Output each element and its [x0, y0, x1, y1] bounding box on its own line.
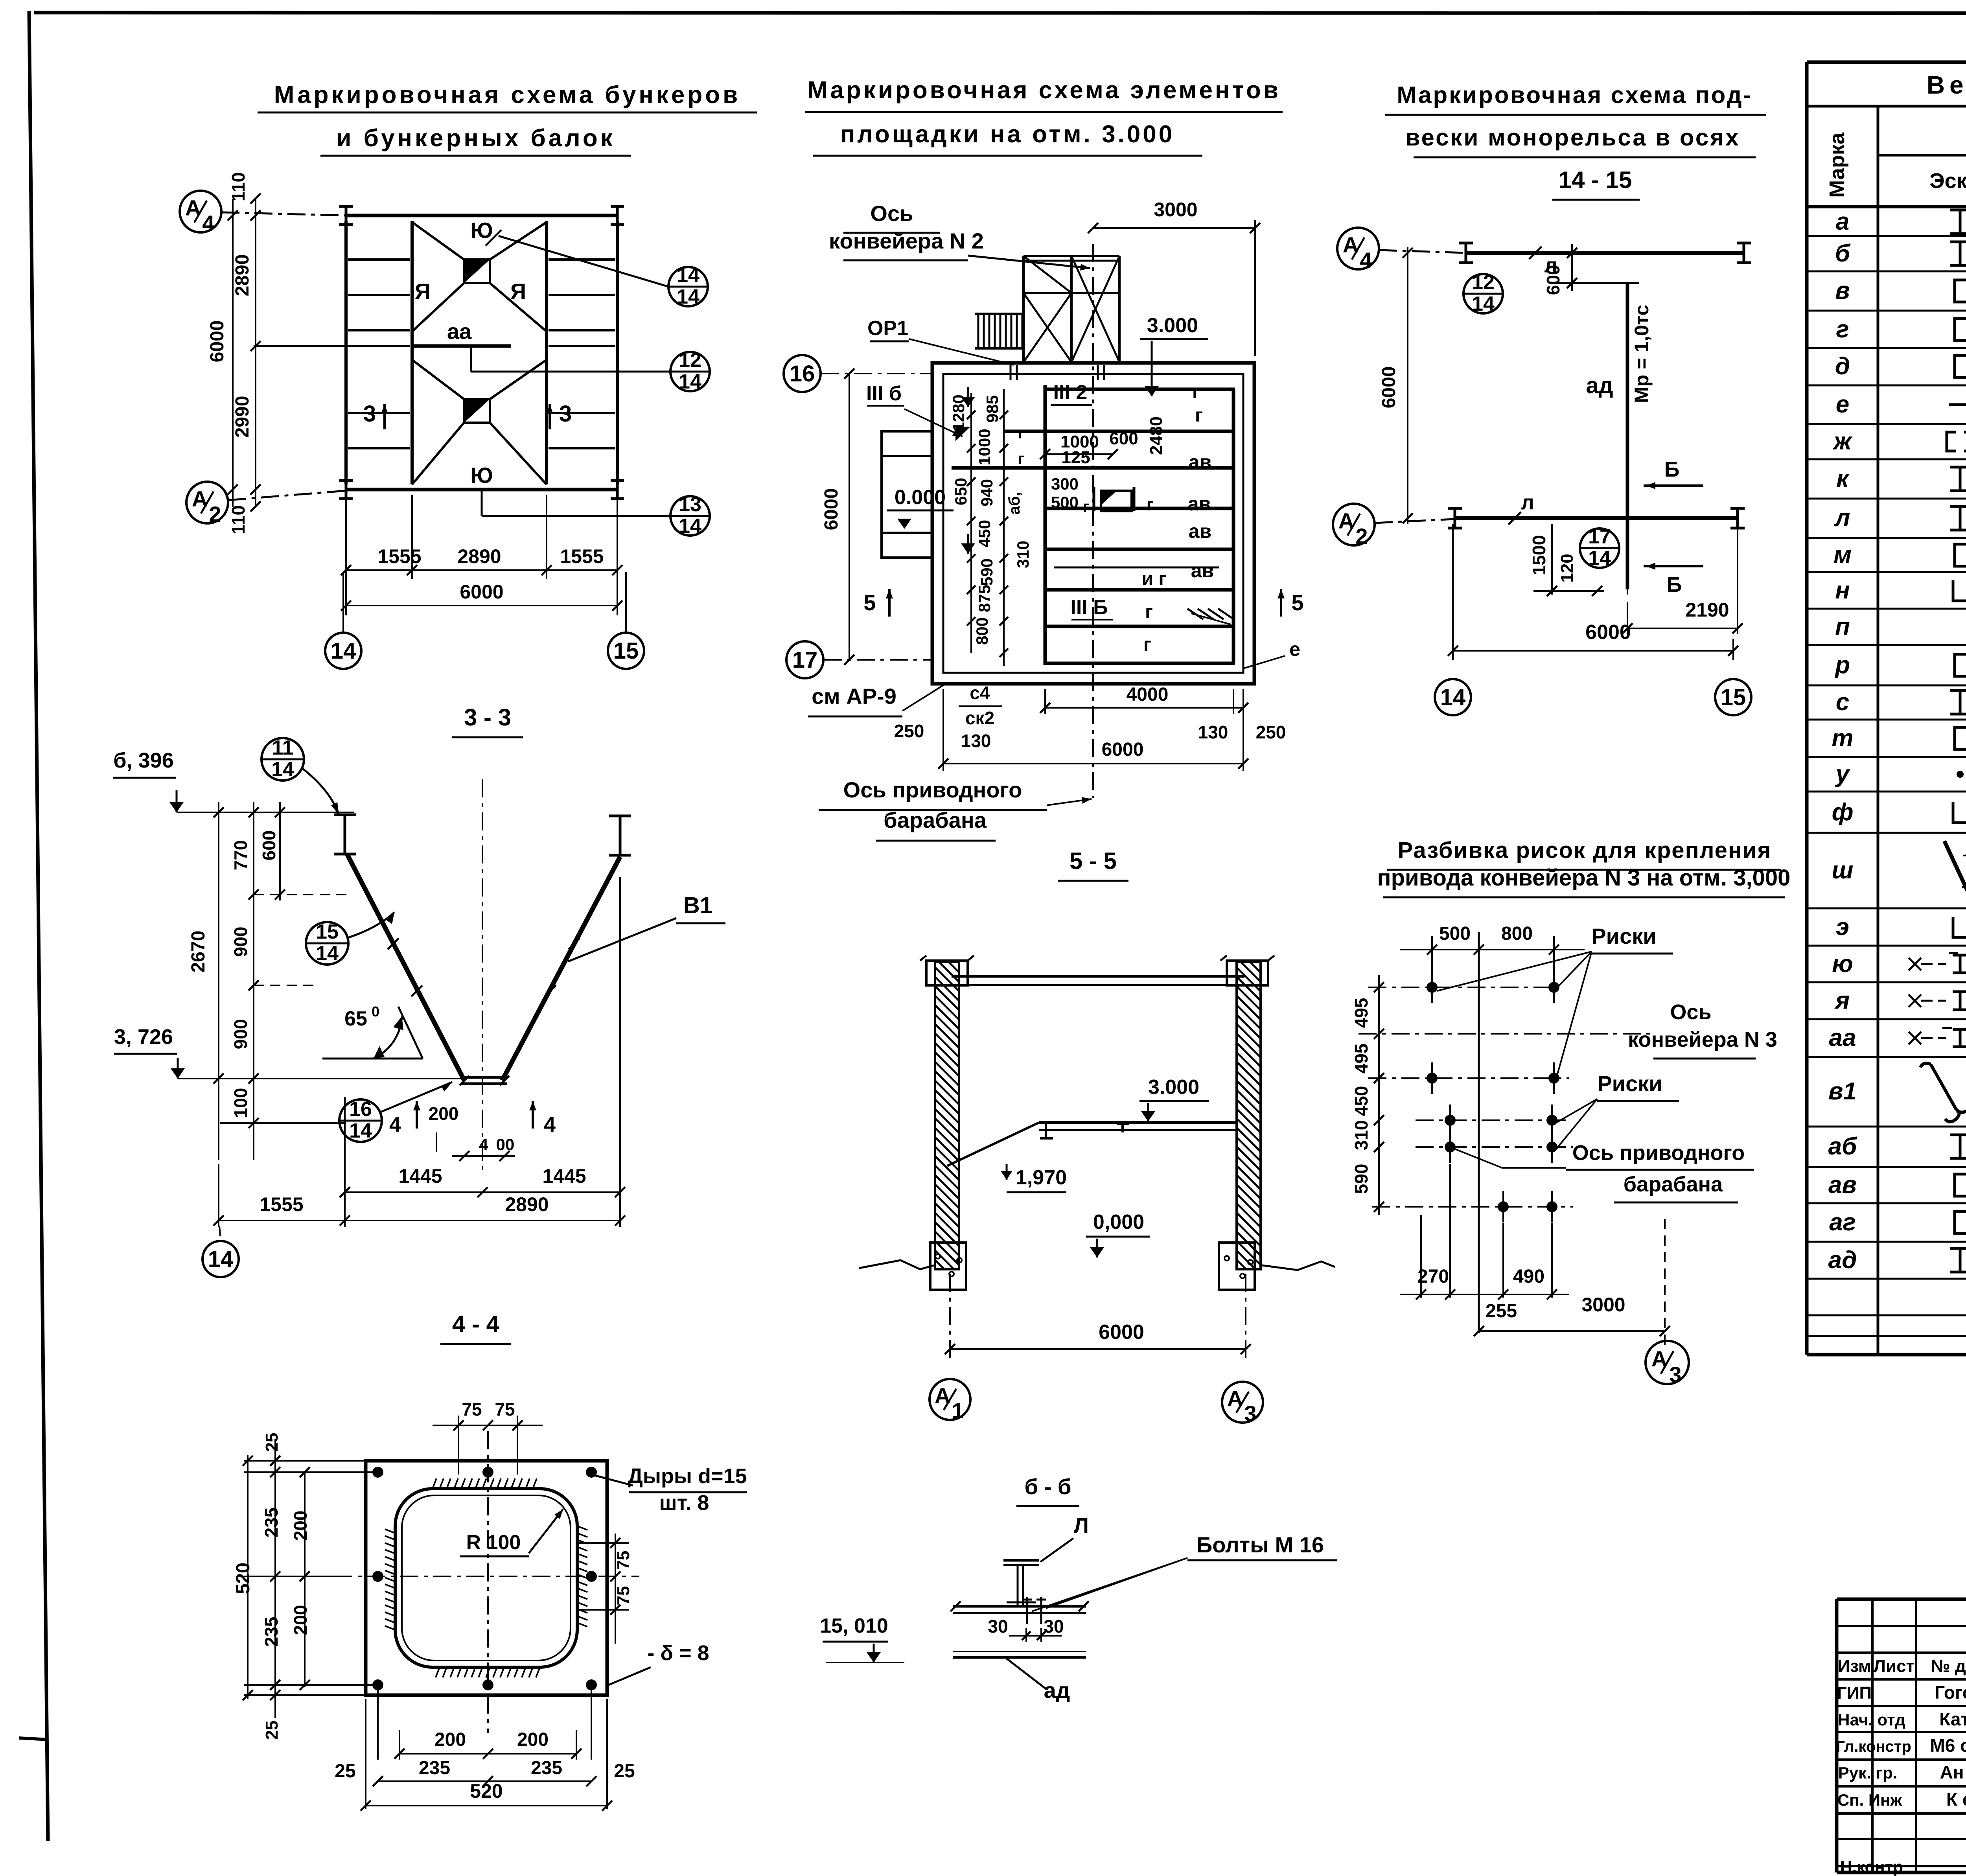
svg-text:Ось: Ось — [1670, 1000, 1711, 1024]
svg-text:4: 4 — [479, 1135, 488, 1154]
svg-text:аб,: аб, — [1006, 492, 1023, 515]
svg-text:3: 3 — [1244, 1401, 1256, 1426]
svg-text:25: 25 — [614, 1761, 635, 1782]
svg-text:65: 65 — [344, 1007, 367, 1030]
svg-text:Изм: Изм — [1838, 1657, 1871, 1676]
svg-text:15, 010: 15, 010 — [820, 1615, 888, 1637]
svg-text:ф: ф — [1832, 799, 1854, 826]
svg-text:л: л — [1834, 504, 1850, 532]
svg-text:14: 14 — [208, 1246, 234, 1272]
svg-text:3000: 3000 — [1154, 199, 1197, 221]
svg-text:е: е — [1289, 638, 1300, 660]
svg-text:520: 520 — [470, 1780, 503, 1802]
svg-text:0.000: 0.000 — [895, 486, 946, 509]
svg-text:Н.контр: Н.контр — [1840, 1858, 1903, 1876]
svg-text:3.000: 3.000 — [1148, 1076, 1199, 1099]
svg-text:у: у — [1835, 760, 1851, 788]
svg-text:Л: Л — [1074, 1514, 1089, 1537]
svg-text:11: 11 — [272, 736, 294, 759]
svg-text:495: 495 — [1351, 1044, 1371, 1074]
svg-text:г: г — [1192, 381, 1200, 402]
svg-text:шт. 8: шт. 8 — [659, 1491, 709, 1515]
svg-text:в: в — [1835, 277, 1850, 304]
svg-text:с: с — [1836, 689, 1849, 716]
svg-text:5: 5 — [1291, 590, 1303, 615]
svg-text:Риски: Риски — [1597, 1071, 1662, 1096]
svg-text:А: А — [1338, 508, 1354, 533]
svg-text:15: 15 — [1721, 685, 1746, 710]
svg-text:6000: 6000 — [1379, 366, 1399, 409]
svg-text:1000: 1000 — [975, 429, 994, 465]
svg-text:30: 30 — [988, 1616, 1008, 1637]
svg-text:к: к — [1836, 465, 1850, 492]
svg-text:ск2: ск2 — [965, 708, 994, 728]
svg-text:110: 110 — [228, 172, 249, 201]
svg-text:конвейера N 3: конвейера N 3 — [1628, 1028, 1777, 1051]
svg-text:235: 235 — [419, 1758, 450, 1778]
svg-text:с4: с4 — [970, 683, 990, 703]
svg-text:900: 900 — [230, 1019, 251, 1049]
svg-text:ав: ав — [1188, 493, 1211, 515]
svg-text:1555: 1555 — [377, 545, 421, 567]
svg-text:3, 726: 3, 726 — [114, 1025, 173, 1049]
svg-text:Лист: Лист — [1874, 1657, 1914, 1676]
svg-text:и г: и г — [1142, 569, 1167, 589]
svg-text:2: 2 — [209, 502, 221, 527]
svg-text:900: 900 — [230, 927, 251, 957]
svg-text:6000: 6000 — [821, 488, 842, 530]
svg-text:А: А — [1227, 1386, 1243, 1411]
svg-text:III Б: III Б — [1070, 596, 1108, 619]
svg-text:1,970: 1,970 — [1016, 1166, 1067, 1189]
svg-text:III 2: III 2 — [1053, 381, 1088, 404]
svg-text:п: п — [1835, 613, 1850, 640]
svg-text:250: 250 — [1256, 722, 1286, 742]
svg-text:75: 75 — [462, 1399, 482, 1419]
svg-text:14: 14 — [677, 264, 700, 287]
svg-text:ш: ш — [1832, 857, 1853, 884]
svg-text:310: 310 — [1014, 541, 1032, 568]
svg-text:600: 600 — [259, 830, 279, 861]
svg-text:235: 235 — [261, 1508, 282, 1538]
svg-text:200: 200 — [429, 1103, 459, 1124]
svg-text:2890: 2890 — [232, 254, 253, 296]
svg-text:н: н — [1835, 577, 1850, 604]
svg-text:е: е — [1836, 391, 1849, 418]
svg-text:Маркировочная схема под-: Маркировочная схема под- — [1397, 82, 1752, 108]
svg-text:4 - 4: 4 - 4 — [452, 1311, 500, 1337]
svg-text:ав: ав — [1828, 1171, 1857, 1199]
svg-text:Дыры d=15: Дыры d=15 — [628, 1464, 747, 1488]
svg-text:Гоголев: Гоголев — [1935, 1682, 1966, 1703]
svg-text:вески монорельса в осях: вески монорельса в осях — [1405, 124, 1740, 151]
svg-text:Риски: Риски — [1591, 924, 1656, 948]
svg-text:л: л — [1521, 491, 1534, 514]
svg-text:Катков: Катков — [1939, 1709, 1966, 1729]
svg-text:г: г — [1143, 634, 1151, 655]
svg-text:б: б — [1835, 240, 1851, 267]
svg-text:270: 270 — [1417, 1266, 1449, 1287]
svg-text:Б: Б — [1667, 573, 1682, 596]
svg-text:14: 14 — [1440, 685, 1466, 710]
svg-text:310: 310 — [1351, 1120, 1371, 1151]
svg-text:985: 985 — [983, 395, 1001, 423]
svg-text:5 - 5: 5 - 5 — [1070, 848, 1117, 874]
svg-text:1280: 1280 — [949, 394, 968, 431]
svg-text:450: 450 — [1351, 1086, 1371, 1116]
svg-text:аа: аа — [447, 319, 472, 344]
svg-text:Я: Я — [510, 279, 526, 304]
svg-text:3: 3 — [559, 401, 572, 427]
svg-text:привода конвейера N 3 на отм: привода конвейера N 3 на отм. 3,000 — [1377, 865, 1791, 891]
svg-text:Ось приводного: Ось приводного — [843, 777, 1022, 802]
svg-text:см АР-9: см АР-9 — [812, 684, 896, 709]
svg-text:30: 30 — [1044, 1616, 1064, 1637]
svg-text:5: 5 — [863, 590, 876, 615]
svg-text:13: 13 — [679, 493, 701, 516]
svg-text:800: 800 — [973, 617, 991, 645]
svg-text:3000: 3000 — [1581, 1294, 1625, 1316]
svg-text:барабана: барабана — [884, 808, 987, 832]
svg-text:600: 600 — [1543, 265, 1563, 295]
svg-text:К еев: К еев — [1946, 1789, 1966, 1810]
svg-text:75: 75 — [614, 1586, 633, 1605]
svg-text:14: 14 — [331, 638, 356, 664]
svg-text:3 - 3: 3 - 3 — [464, 704, 511, 731]
svg-text:барабана: барабана — [1624, 1173, 1723, 1196]
svg-text:6000: 6000 — [1102, 739, 1144, 760]
svg-text:Эскиз: Эскиз — [1929, 169, 1966, 193]
svg-text:1445: 1445 — [542, 1165, 586, 1187]
svg-text:№ докум.: № докум. — [1931, 1657, 1966, 1676]
svg-text:200: 200 — [517, 1729, 549, 1750]
svg-text:14: 14 — [349, 1119, 372, 1142]
svg-text:14: 14 — [1588, 547, 1611, 570]
svg-text:Сп. Инж: Сп. Инж — [1837, 1791, 1903, 1809]
svg-text:75: 75 — [495, 1399, 515, 1419]
svg-text:а: а — [1836, 208, 1849, 235]
svg-text:ав: ав — [1189, 451, 1212, 473]
svg-text:15: 15 — [613, 638, 639, 664]
svg-text:ав: ав — [1191, 560, 1214, 582]
svg-text:4: 4 — [389, 1113, 401, 1136]
svg-text:площадки на отм. 3.000: площадки на отм. 3.000 — [840, 121, 1174, 148]
svg-text:1500: 1500 — [1529, 535, 1549, 575]
svg-text:00: 00 — [496, 1135, 515, 1154]
svg-text:6000: 6000 — [1099, 1321, 1144, 1344]
svg-text:14: 14 — [316, 942, 339, 965]
svg-text:300: 300 — [1051, 475, 1079, 493]
svg-text:я: я — [1834, 987, 1850, 1014]
svg-text:130: 130 — [961, 731, 991, 751]
svg-text:М6 озова: М6 озова — [1930, 1735, 1966, 1756]
svg-text:17: 17 — [792, 647, 818, 673]
svg-text:14 - 15: 14 - 15 — [1559, 167, 1632, 193]
svg-text:3.000: 3.000 — [1147, 314, 1198, 337]
svg-text:4000: 4000 — [1127, 684, 1169, 705]
svg-text:490: 490 — [1513, 1266, 1544, 1287]
svg-text:2480: 2480 — [1147, 416, 1166, 455]
svg-text:г: г — [1836, 316, 1849, 343]
svg-text:Б: Б — [1664, 458, 1680, 481]
svg-text:г: г — [1147, 495, 1154, 514]
svg-text:14: 14 — [679, 515, 701, 538]
svg-text:2990: 2990 — [232, 396, 253, 438]
svg-text:250: 250 — [894, 721, 924, 741]
svg-text:590: 590 — [1351, 1164, 1371, 1194]
svg-text:16: 16 — [349, 1098, 372, 1121]
svg-text:э: э — [1836, 913, 1849, 941]
svg-text:Марка: Марка — [1825, 132, 1849, 198]
svg-text:III б: III б — [866, 382, 902, 405]
svg-text:Ю: Ю — [470, 218, 493, 243]
svg-text:Мр = 1,0тс: Мр = 1,0тс — [1631, 305, 1653, 403]
svg-text:ад: ад — [1828, 1246, 1857, 1274]
svg-text:Гл.констр: Гл.констр — [1836, 1738, 1911, 1755]
svg-text:200: 200 — [290, 1605, 311, 1635]
svg-text:125: 125 — [1061, 448, 1090, 467]
svg-text:в1: в1 — [1828, 1078, 1857, 1105]
svg-text:м: м — [1833, 541, 1852, 569]
svg-text:25: 25 — [262, 1721, 282, 1740]
svg-text:800: 800 — [1501, 923, 1533, 944]
svg-text:130: 130 — [1198, 722, 1228, 742]
svg-text:и бункерных балок: и бункерных балок — [336, 125, 615, 152]
svg-text:940: 940 — [977, 479, 996, 506]
svg-text:4: 4 — [202, 211, 214, 236]
svg-text:А: А — [1651, 1346, 1667, 1371]
svg-text:аа: аа — [1829, 1024, 1856, 1051]
svg-text:А: А — [192, 486, 208, 511]
svg-text:р: р — [1834, 652, 1850, 679]
svg-text:г: г — [1018, 425, 1025, 442]
svg-text:ав: ав — [1189, 520, 1212, 542]
svg-text:600: 600 — [1109, 429, 1138, 448]
svg-text:3: 3 — [363, 401, 376, 427]
svg-text:Ось: Ось — [870, 201, 913, 226]
svg-text:12: 12 — [1472, 271, 1495, 294]
svg-text:Разбивка рисок для креплени: Разбивка рисок для крепления — [1398, 838, 1772, 863]
svg-text:4: 4 — [544, 1113, 556, 1136]
svg-text:495: 495 — [1351, 998, 1371, 1028]
svg-text:Нач. отд: Нач. отд — [1838, 1710, 1905, 1729]
svg-text:14: 14 — [679, 370, 701, 393]
svg-text:110: 110 — [228, 505, 249, 534]
svg-text:г: г — [1145, 602, 1153, 622]
svg-text:16: 16 — [790, 361, 815, 387]
svg-text:14: 14 — [1472, 293, 1495, 315]
svg-text:255: 255 — [1486, 1301, 1517, 1322]
svg-text:т: т — [1832, 725, 1853, 752]
svg-text:17: 17 — [1588, 525, 1611, 548]
svg-text:1555: 1555 — [260, 1193, 303, 1215]
svg-text:Ан кин: Ан кин — [1940, 1762, 1966, 1782]
svg-text:Маркировочная схема бункеров: Маркировочная схема бункеров — [274, 81, 740, 109]
svg-text:650: 650 — [952, 478, 970, 505]
svg-text:2670: 2670 — [188, 931, 209, 973]
svg-text:ГИП: ГИП — [1837, 1683, 1872, 1703]
svg-text:г: г — [1083, 498, 1090, 515]
svg-text:д: д — [1835, 353, 1850, 380]
svg-text:ад: ад — [1586, 373, 1613, 398]
svg-text:Ведомость элементов: Ведомость элементов — [1927, 71, 1966, 99]
svg-text:2: 2 — [1355, 524, 1368, 549]
svg-text:200: 200 — [434, 1729, 466, 1750]
svg-text:770: 770 — [230, 840, 251, 871]
svg-text:6000: 6000 — [207, 320, 228, 363]
svg-text:6000: 6000 — [460, 581, 503, 603]
svg-text:75: 75 — [614, 1551, 633, 1570]
svg-text:2890: 2890 — [505, 1193, 549, 1215]
svg-text:520: 520 — [233, 1563, 254, 1594]
svg-text:235: 235 — [531, 1758, 562, 1778]
svg-text:1: 1 — [952, 1398, 964, 1423]
svg-text:4: 4 — [1360, 248, 1372, 272]
svg-text:Болты М 16: Болты М 16 — [1197, 1532, 1324, 1557]
svg-text:6000: 6000 — [1585, 621, 1631, 644]
svg-text:875: 875 — [975, 585, 994, 612]
svg-text:ю: ю — [1832, 950, 1853, 978]
svg-text:0,000: 0,000 — [1093, 1211, 1144, 1233]
svg-text:1445: 1445 — [398, 1165, 442, 1187]
svg-text:500: 500 — [1051, 493, 1079, 512]
svg-text:3: 3 — [1669, 1362, 1681, 1387]
svg-text:590: 590 — [977, 558, 996, 586]
svg-text:ОР1: ОР1 — [867, 317, 908, 340]
svg-text:г: г — [1018, 450, 1025, 468]
svg-text:12: 12 — [679, 349, 701, 372]
svg-text:Рук. гр.: Рук. гр. — [1838, 1764, 1898, 1782]
svg-text:В1: В1 — [683, 893, 712, 918]
svg-text:15: 15 — [316, 921, 339, 943]
svg-text:аб: аб — [1828, 1133, 1857, 1160]
svg-text:450: 450 — [975, 520, 994, 547]
svg-text:2190: 2190 — [1685, 599, 1729, 621]
svg-text:аг: аг — [1829, 1209, 1856, 1236]
svg-text:25: 25 — [335, 1761, 355, 1782]
svg-text:А: А — [935, 1383, 950, 1408]
svg-text:235: 235 — [261, 1617, 282, 1647]
svg-text:500: 500 — [1439, 923, 1471, 944]
svg-text:ад: ад — [1044, 1678, 1070, 1703]
svg-text:25: 25 — [262, 1433, 282, 1452]
svg-text:Ю: Ю — [470, 463, 493, 488]
svg-text:Я: Я — [415, 279, 431, 304]
svg-text:б, 396: б, 396 — [113, 749, 173, 772]
svg-text:14: 14 — [677, 285, 700, 308]
svg-text:2890: 2890 — [457, 545, 501, 567]
svg-text:Маркировочная схема элементо: Маркировочная схема элементов — [807, 77, 1281, 104]
svg-text:А: А — [1343, 232, 1359, 257]
svg-text:ж: ж — [1832, 428, 1853, 455]
svg-text:г: г — [1195, 405, 1203, 426]
svg-text:120: 120 — [1557, 554, 1577, 582]
svg-text:- δ = 8: - δ = 8 — [647, 1641, 709, 1665]
svg-text:1555: 1555 — [560, 545, 604, 567]
svg-text:R 100: R 100 — [466, 1531, 521, 1554]
svg-text:0: 0 — [372, 1003, 379, 1020]
svg-text:Ось приводного: Ось приводного — [1572, 1141, 1745, 1165]
svg-text:А: А — [185, 195, 201, 220]
svg-text:200: 200 — [290, 1511, 311, 1541]
svg-text:14: 14 — [271, 758, 294, 781]
svg-text:б - б: б - б — [1025, 1474, 1071, 1499]
svg-text:100: 100 — [230, 1088, 251, 1118]
